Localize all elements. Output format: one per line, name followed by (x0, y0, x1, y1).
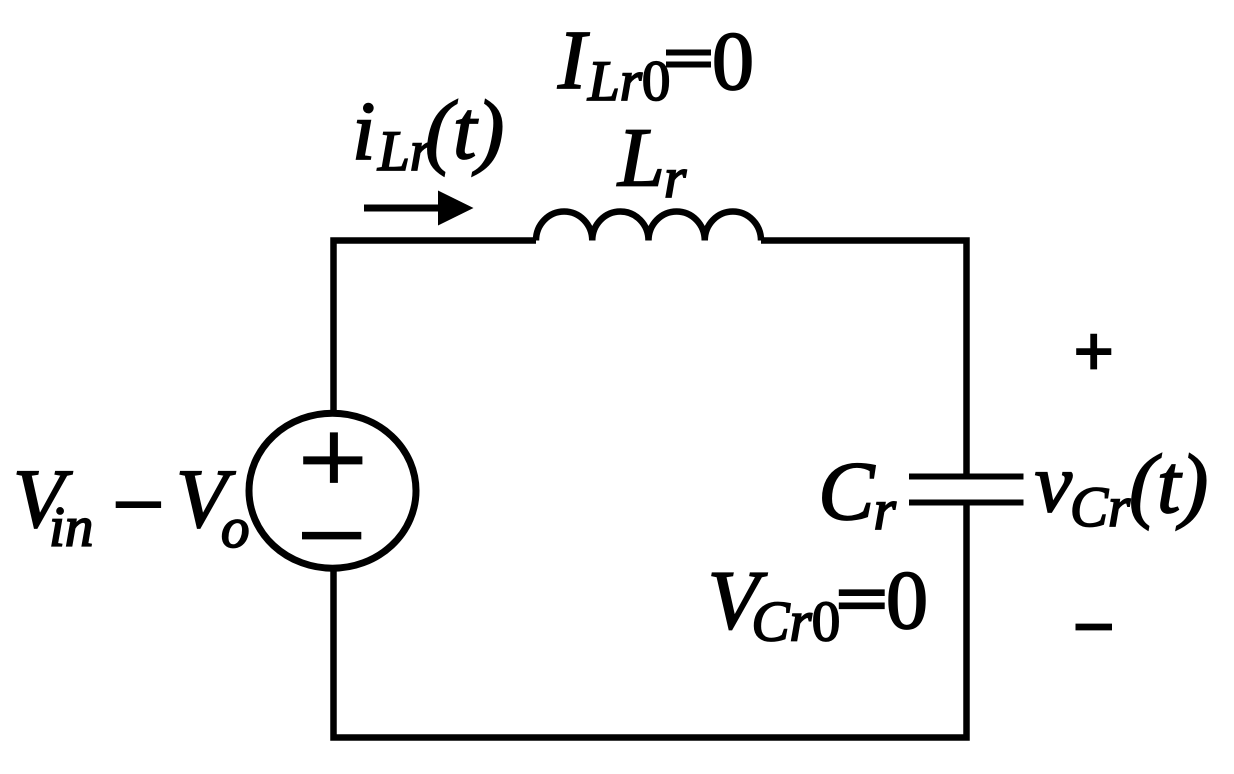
voltage source plus sign (303, 432, 362, 483)
svg-text:r: r (664, 147, 687, 210)
capacitor Cr top plate (909, 474, 1024, 480)
wire bottom segment (capacitor to source) (334, 505, 967, 738)
svg-text:in: in (49, 496, 93, 559)
capacitor Cr bottom plate (909, 500, 1024, 506)
svg-text:L: L (617, 112, 665, 205)
svg-text:Cr0: Cr0 (752, 590, 841, 653)
label minus of Vin-Vo (116, 501, 161, 508)
svg-text:i: i (352, 85, 375, 178)
svg-text:0: 0 (886, 554, 928, 647)
current direction arrow (364, 191, 474, 226)
label = of VCr0=0 (839, 593, 885, 606)
wire top-right segment (inductor to capacitor) (761, 241, 967, 475)
svg-text:I: I (557, 14, 590, 107)
svg-text:Lr0: Lr0 (587, 50, 670, 113)
inductor Lr (536, 211, 761, 240)
svg-text:o: o (221, 497, 250, 560)
svg-text:(t): (t) (1129, 438, 1208, 531)
svg-text:v: v (1035, 437, 1073, 530)
capacitor plus polarity mark (1076, 334, 1111, 370)
capacitor minus polarity mark (1076, 624, 1113, 631)
svg-text:Cr: Cr (1070, 476, 1131, 539)
voltage source minus sign (302, 532, 361, 540)
svg-text:C: C (818, 445, 875, 538)
svg-text:r: r (874, 479, 897, 542)
voltage source V1 circle (249, 413, 416, 568)
label = of ILr0=0 (666, 53, 711, 65)
wire left-top segment (source to inductor) (334, 241, 537, 414)
svg-text:(t): (t) (425, 84, 504, 177)
svg-text:0: 0 (712, 15, 754, 108)
